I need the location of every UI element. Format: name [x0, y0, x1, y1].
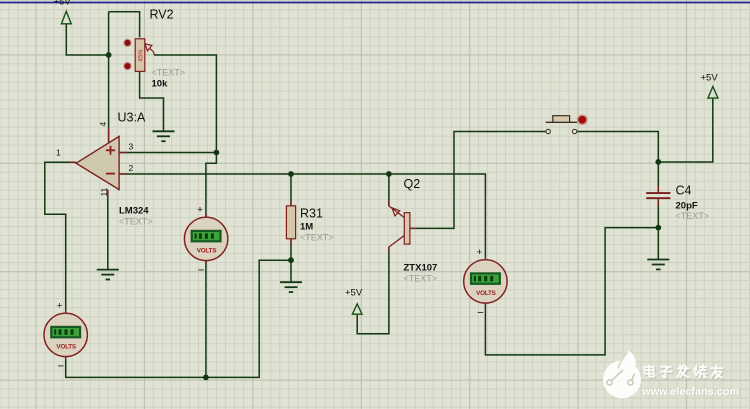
- voltmeter VM1: [44, 300, 87, 372]
- svg-text:3: 3: [129, 142, 134, 152]
- svg-text:−: −: [58, 360, 64, 372]
- svg-text:U3:A: U3:A: [118, 111, 146, 125]
- svg-text:ZTX107: ZTX107: [404, 263, 438, 274]
- wire +5V A3 feed: [658, 98, 713, 162]
- wire bottom rail VM1- to R31 foot: [66, 260, 291, 377]
- svg-text:+5V: +5V: [345, 288, 363, 299]
- ground under C4: [647, 260, 669, 270]
- wire Q2 emitter drop: [388, 174, 390, 206]
- voltmeter VM3: [464, 247, 507, 319]
- node junction switch/C4/+5V: [655, 159, 661, 165]
- watermark logo elecfans: [603, 351, 641, 399]
- power +5V symbol (top-left): [54, 0, 72, 24]
- svg-text:RV2: RV2: [150, 8, 174, 22]
- svg-text:<TEXT>: <TEXT>: [404, 274, 438, 284]
- wire +5V arrow A1 to junction: [66, 24, 108, 55]
- svg-text:<TEXT>: <TEXT>: [300, 233, 334, 243]
- switch state red dot: [577, 114, 588, 125]
- wire step node to voltmeter VM2: [206, 153, 217, 218]
- svg-text:11: 11: [99, 187, 109, 196]
- wire op-amp pin2 (-) net to VM3: [119, 174, 485, 260]
- svg-text:R31: R31: [300, 207, 323, 221]
- wire switch to C4 node: [577, 132, 658, 162]
- svg-text:45%: 45%: [139, 49, 145, 62]
- wire RV2 wiper to node: [154, 55, 216, 153]
- sheet border (top blue line): [0, 2, 750, 4]
- svg-text:LM324: LM324: [119, 206, 149, 217]
- svg-text:VOLTS: VOLTS: [197, 247, 217, 254]
- node junction pin2/Q2 emitter: [386, 171, 392, 177]
- potentiometer RV2 body: [135, 39, 145, 72]
- op-amp pin stubs: [70, 128, 127, 197]
- node junction wiper/pin3: [214, 150, 220, 156]
- svg-text:20pF: 20pF: [676, 201, 698, 212]
- wire C4 bottom lead to ground: [657, 199, 659, 259]
- svg-text:<TEXT>: <TEXT>: [676, 211, 710, 221]
- wire op-amp pin1 output to voltmeter VM1: [45, 162, 76, 313]
- svg-text:1: 1: [56, 148, 61, 158]
- svg-text:<TEXT>: <TEXT>: [152, 68, 186, 78]
- watermark chinese text: [645, 365, 725, 379]
- svg-text:C4: C4: [676, 184, 692, 198]
- transistor Q2: [389, 200, 417, 252]
- svg-text:VOLTS: VOLTS: [56, 343, 76, 350]
- RV2 terminal dot top: [123, 39, 131, 47]
- ground under R31: [280, 282, 302, 292]
- svg-text:10k: 10k: [152, 79, 169, 90]
- svg-text:+: +: [57, 300, 63, 311]
- wire Q2 base to switch: [410, 132, 546, 229]
- svg-text:VOLTS: VOLTS: [476, 290, 496, 297]
- svg-text:www.elecfans.com: www.elecfans.com: [641, 386, 739, 398]
- wire VM2 minus drop: [205, 260, 207, 377]
- wire C4 node to VM3 minus: [485, 228, 658, 355]
- op-amp U3:A: [76, 136, 119, 189]
- wire R31 bottom lead to ground: [290, 239, 292, 282]
- svg-text:Q2: Q2: [404, 177, 421, 191]
- power +5V symbol A2: [345, 288, 363, 315]
- wire RV2 top rail: [109, 12, 140, 38]
- wire R31 top lead: [290, 174, 292, 206]
- wire op-amp pin3 (+) input: [119, 152, 216, 154]
- push button switch: [546, 116, 577, 134]
- ground under RV2: [153, 131, 175, 141]
- svg-text:+5V: +5V: [701, 73, 719, 84]
- wire C4 top lead: [657, 162, 659, 192]
- svg-text:4: 4: [98, 122, 108, 127]
- svg-text:<TEXT>: <TEXT>: [119, 217, 153, 227]
- capacitor C4: [646, 186, 670, 206]
- svg-text:+: +: [477, 247, 483, 258]
- ground under pin11: [97, 270, 119, 280]
- RV2 wiper arrow: [145, 44, 154, 55]
- svg-text:+: +: [197, 204, 203, 215]
- node junction rail/VM2: [203, 375, 209, 381]
- svg-text:2: 2: [129, 163, 134, 173]
- wire RV2 bottom to ground: [140, 71, 164, 131]
- resistor R31 body: [286, 200, 295, 245]
- node junction pin2/R31: [288, 171, 294, 177]
- wire op-amp pin4 supply: [108, 12, 110, 143]
- svg-text:−: −: [477, 307, 483, 319]
- wire op-amp pin11 to ground: [107, 190, 109, 270]
- wire Q2 collector to +5V A2: [357, 247, 389, 334]
- power +5V symbol A3 (top-right): [701, 73, 719, 99]
- node junction C4 bottom: [655, 225, 661, 231]
- node junction R31/rail: [288, 257, 294, 263]
- voltmeter VM2: [184, 204, 227, 276]
- svg-text:−: −: [198, 264, 204, 276]
- svg-text:+5V: +5V: [54, 0, 72, 8]
- svg-text:1M: 1M: [300, 222, 313, 233]
- RV2 terminal dot bottom: [123, 62, 131, 70]
- node junction +5V/RV2/pin4: [106, 52, 112, 58]
